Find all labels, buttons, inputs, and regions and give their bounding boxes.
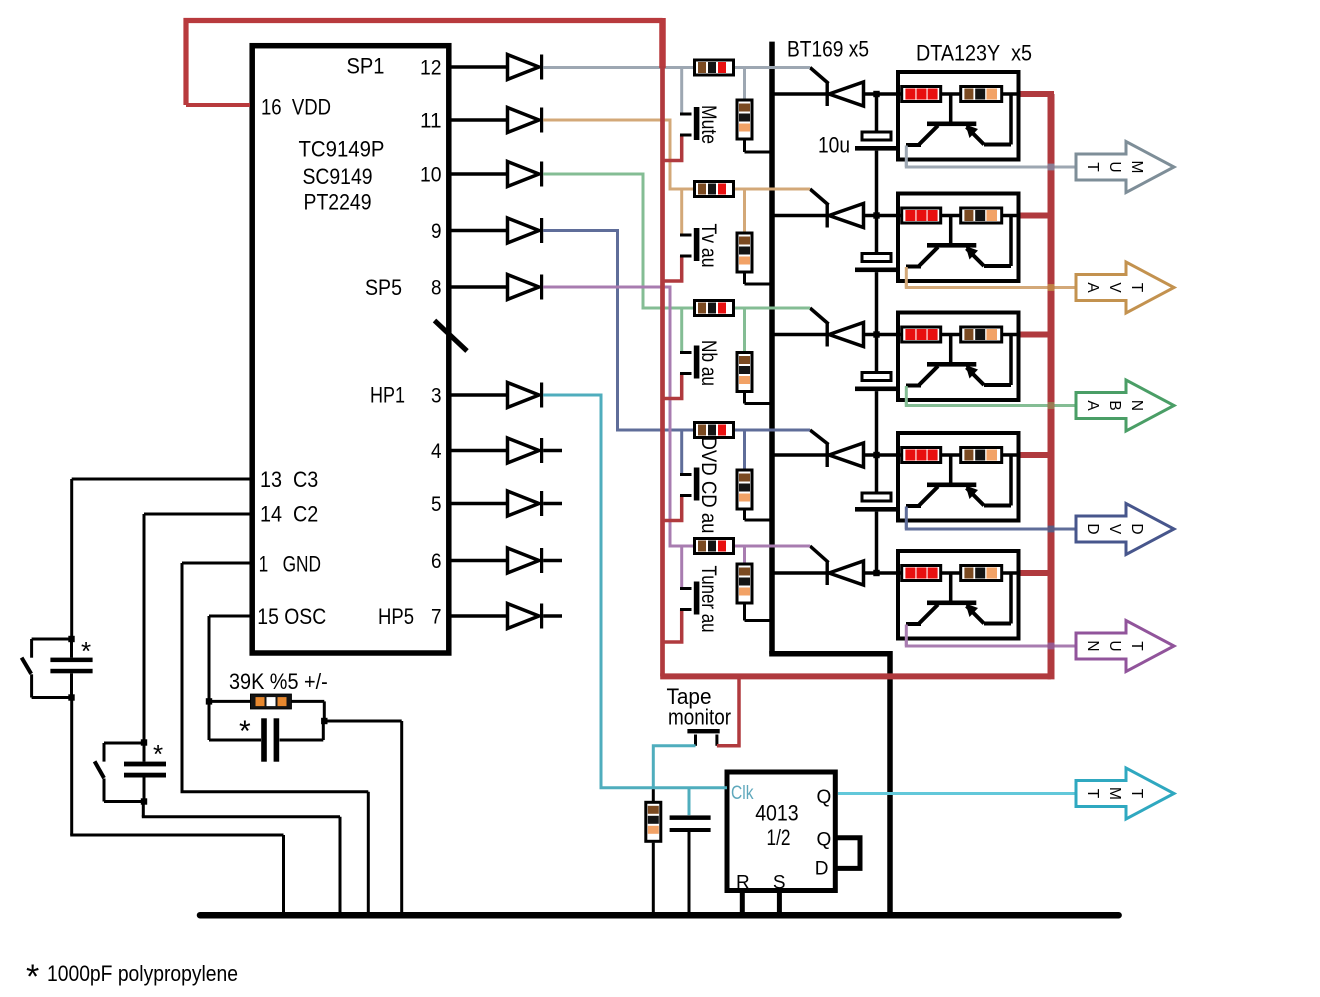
- svg-text:A: A: [1084, 400, 1101, 411]
- svg-text:1000pF polypropylene: 1000pF polypropylene: [47, 961, 238, 986]
- svg-text:15 OSC: 15 OSC: [257, 604, 326, 629]
- svg-text:monitor: monitor: [668, 705, 731, 730]
- svg-text:M: M: [1128, 161, 1145, 174]
- svg-text:A: A: [1084, 282, 1101, 293]
- svg-text:SP1: SP1: [347, 54, 385, 79]
- svg-text:T: T: [1128, 283, 1145, 293]
- svg-text:TC9149P: TC9149P: [299, 137, 385, 162]
- svg-text:Mute: Mute: [697, 105, 720, 144]
- svg-text:Tv au: Tv au: [697, 224, 720, 268]
- svg-text:U: U: [1106, 640, 1123, 651]
- svg-text:T: T: [1128, 641, 1145, 651]
- svg-text:U: U: [1106, 161, 1123, 172]
- svg-text:Tuner au: Tuner au: [697, 566, 720, 633]
- svg-text:SP5: SP5: [365, 275, 402, 300]
- svg-text:*: *: [239, 715, 251, 748]
- svg-text:4: 4: [431, 440, 442, 463]
- svg-text:10u: 10u: [818, 133, 850, 158]
- svg-text:13 C3: 13 C3: [260, 467, 318, 492]
- svg-text:39K %5 +/-: 39K %5 +/-: [229, 669, 328, 694]
- svg-text:4013: 4013: [755, 801, 799, 826]
- svg-text:HP5: HP5: [378, 604, 414, 629]
- svg-text:11: 11: [420, 110, 442, 133]
- svg-text:*: *: [26, 958, 39, 992]
- svg-text:BT169 x5: BT169 x5: [787, 37, 869, 62]
- svg-text:T: T: [1084, 789, 1101, 799]
- svg-text:12: 12: [420, 57, 442, 80]
- svg-text:*: *: [153, 739, 163, 769]
- svg-text:SC9149: SC9149: [303, 164, 373, 189]
- svg-text:PT2249: PT2249: [304, 190, 372, 215]
- svg-text:Q: Q: [817, 787, 832, 808]
- svg-text:10: 10: [420, 164, 442, 187]
- svg-text:T: T: [1084, 162, 1101, 172]
- svg-text:1 GND: 1 GND: [259, 552, 321, 577]
- svg-text:D: D: [1128, 523, 1145, 534]
- svg-text:V: V: [1106, 282, 1123, 293]
- svg-text:8: 8: [431, 277, 442, 300]
- svg-text:9: 9: [431, 220, 442, 243]
- svg-text:DVD CD au: DVD CD au: [697, 437, 720, 534]
- svg-text:Q: Q: [817, 830, 832, 851]
- svg-text:N: N: [1128, 400, 1145, 411]
- svg-text:D: D: [815, 859, 829, 880]
- svg-text:7: 7: [431, 606, 442, 629]
- svg-text:Nb au: Nb au: [697, 340, 720, 386]
- svg-text:14 C2: 14 C2: [260, 502, 318, 527]
- svg-text:S: S: [773, 873, 786, 894]
- svg-text:B: B: [1106, 400, 1123, 410]
- svg-text:DTA123Y x5: DTA123Y x5: [916, 41, 1032, 66]
- svg-text:M: M: [1106, 787, 1123, 800]
- svg-text:1/2: 1/2: [767, 825, 791, 850]
- svg-text:V: V: [1106, 524, 1123, 535]
- svg-text:D: D: [1084, 523, 1101, 534]
- svg-text:6: 6: [431, 550, 442, 573]
- svg-text:*: *: [81, 636, 91, 666]
- svg-text:HP1: HP1: [370, 383, 405, 408]
- svg-text:16 VDD: 16 VDD: [261, 95, 331, 120]
- svg-text:T: T: [1128, 789, 1145, 799]
- svg-text:R: R: [736, 873, 750, 894]
- svg-text:5: 5: [431, 493, 442, 516]
- svg-text:3: 3: [431, 385, 442, 408]
- svg-text:N: N: [1084, 640, 1101, 651]
- svg-text:Clk: Clk: [731, 783, 754, 804]
